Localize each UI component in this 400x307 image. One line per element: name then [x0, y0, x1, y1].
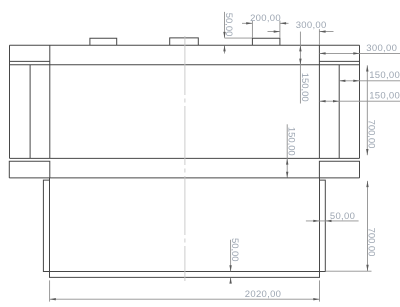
lug tab 2 [170, 38, 199, 45]
extension lines 200,00 [252, 21, 280, 38]
arrow 150 strip up [299, 45, 301, 51]
svg-text:2020,00: 2020,00 [245, 289, 281, 300]
extension line 300,00 top [318, 29, 320, 45]
dimension 50,00 bottom wall line [230, 240, 232, 284]
svg-text:50,00: 50,00 [330, 211, 355, 222]
right divider vertical [318, 45, 320, 158]
arrow 150 r1 left [339, 80, 345, 82]
svg-text:700,00: 700,00 [365, 120, 376, 149]
arrow 2020 right [313, 298, 319, 300]
arrow 50 right wall left [313, 220, 319, 222]
arrow 150 mid up [286, 158, 288, 164]
arrow 150 mid down [286, 172, 288, 178]
arrow 2020 left [50, 298, 56, 300]
lower left end plate [9, 161, 50, 178]
arrow 50 top up [223, 45, 225, 51]
arrow 700 lower bottom [366, 265, 368, 271]
arrow 300 top right [319, 30, 325, 32]
left middle column line [29, 65, 31, 159]
svg-text:150,00: 150,00 [299, 73, 310, 102]
svg-text:50,00: 50,00 [229, 238, 240, 262]
arrow 150 strip down [299, 59, 301, 65]
svg-text:300,00: 300,00 [366, 43, 397, 54]
arrow 200 left [246, 22, 252, 24]
svg-text:200,00: 200,00 [250, 13, 281, 24]
dimension 300,00 right line [319, 52, 400, 54]
tank deep shell [50, 178, 320, 278]
svg-text:700,00: 700,00 [365, 228, 376, 257]
dimension 200,00 tails [242, 22, 289, 24]
arrow 50 bottom up [229, 277, 231, 283]
body bottom line Y1 [10, 157, 360, 159]
svg-text:150,00: 150,00 [369, 90, 400, 101]
arrow 300 right left [319, 52, 325, 54]
right middle column line [338, 65, 340, 159]
arrow 700 lower top [366, 181, 368, 187]
arrow 50 right wall right [325, 220, 331, 222]
arrow 150 r2 right [333, 100, 339, 102]
arrow 700 upper bottom [366, 149, 368, 155]
arrow 300 top left [274, 30, 280, 32]
dimension 50,00 top line [224, 12, 226, 54]
extension line tab top [225, 37, 253, 39]
dimension 300,00 top tails [268, 31, 334, 33]
dimension 150,00 right row1 line [339, 80, 400, 82]
arrow 300 right right [353, 52, 359, 54]
lug tab 1 [90, 38, 117, 45]
svg-text:150,00: 150,00 [286, 127, 297, 156]
svg-text:150,00: 150,00 [369, 70, 400, 81]
svg-text:300,00: 300,00 [296, 20, 327, 31]
dimension 150,00 right row2 line [319, 100, 400, 102]
dimension 150,00 strip height line and leader [299, 32, 301, 104]
arrow 150 r2 left [319, 100, 325, 102]
centerline [184, 36, 186, 281]
dimension 50,00 right wall line [306, 220, 359, 222]
arrow 200 right [280, 22, 286, 24]
lug tab 3 [252, 38, 280, 45]
extension line 700 lower bottom [325, 270, 371, 272]
dimension 150,00 mid leader [286, 124, 288, 177]
arrow 50 top down [223, 32, 225, 38]
svg-text:50,00: 50,00 [223, 13, 234, 37]
dimension 700,00 upper line [366, 65, 368, 155]
extension lines 2020,00 [50, 280, 320, 301]
top flange strip outline [10, 45, 360, 158]
tank top line Y2 [9, 177, 359, 179]
right end plate inner line [319, 60, 359, 62]
left divider vertical [49, 45, 51, 158]
arrow 700 upper top [366, 65, 368, 71]
tank wide shell [43, 180, 325, 271]
left end plate inner line [10, 60, 50, 62]
dimension 700,00 lower line [367, 181, 369, 271]
arrow 50 bottom down [229, 265, 231, 271]
arrow 150 r1 right [353, 80, 359, 82]
dimension 2020,00 line [50, 298, 320, 300]
lower right end plate [319, 161, 359, 178]
